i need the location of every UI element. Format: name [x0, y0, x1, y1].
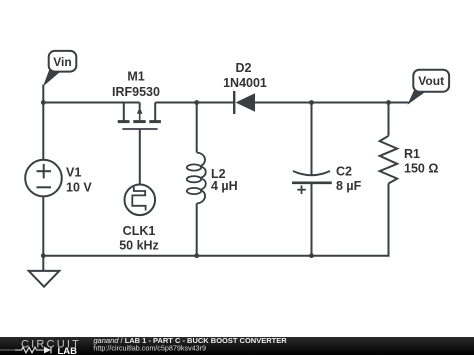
- junction Vin node / V1 top: [41, 100, 46, 105]
- junction C2 bottom: [309, 253, 314, 258]
- svg-text:8 µF: 8 µF: [336, 179, 362, 193]
- svg-text:LAB: LAB: [58, 346, 78, 355]
- wire top rail right (D2 anode to Vout tail): [255, 102, 409, 104]
- svg-text:Vin: Vin: [53, 55, 71, 69]
- svg-text:C2: C2: [336, 165, 352, 179]
- junction R1 top / Vout node: [386, 100, 391, 105]
- wire C2 bottom: [311, 183, 313, 256]
- junction C2 top: [309, 100, 314, 105]
- resistor R1: [380, 136, 439, 184]
- node Vin flag: [44, 51, 76, 85]
- ground: [29, 271, 60, 287]
- junction L2 top: [194, 100, 199, 105]
- junction L2 bottom: [194, 253, 199, 258]
- wire top rail mid (M1 drain to D2 cathode): [155, 102, 234, 104]
- wire M1 gate to CLK1: [139, 129, 141, 185]
- svg-text:50 kHz: 50 kHz: [119, 239, 159, 253]
- wire V1 top: [42, 103, 44, 160]
- transistor M1 (PMOS): [112, 70, 161, 130]
- wire top rail left (Vin node to M1 source/body): [43, 85, 139, 103]
- svg-text:10 V: 10 V: [66, 181, 92, 195]
- svg-text:1N4001: 1N4001: [223, 76, 267, 90]
- junction ground node / V1 bottom: [41, 253, 46, 258]
- inductor L2: [187, 153, 238, 204]
- voltage source V1: [25, 160, 92, 197]
- clock source CLK1: [119, 185, 159, 253]
- node Vout flag: [409, 70, 449, 104]
- C2 plus polarity mark: [297, 189, 306, 191]
- svg-text:4 µH: 4 µH: [211, 179, 238, 193]
- wire bottom rail: [43, 184, 388, 256]
- svg-text:http://circuitlab.com/c5p879ks: http://circuitlab.com/c5p879ksv43r9: [93, 343, 206, 352]
- svg-text:IRF9530: IRF9530: [112, 85, 160, 99]
- wire C2 top: [311, 103, 313, 175]
- svg-text:150 Ω: 150 Ω: [404, 162, 438, 176]
- svg-text:V1: V1: [66, 166, 81, 180]
- svg-text:CLK1: CLK1: [123, 224, 156, 238]
- wire R1 top: [388, 103, 390, 136]
- diode D2: [223, 61, 267, 114]
- capacitor C2 (polarized): [292, 165, 362, 195]
- wire ground stem: [42, 256, 44, 271]
- logo lead-in wire: [0, 349, 15, 351]
- wire L2 top: [196, 103, 198, 153]
- svg-text:M1: M1: [127, 70, 144, 84]
- logo diode: [44, 347, 51, 354]
- svg-text:R1: R1: [404, 147, 420, 161]
- logo resistor zigzag wire: [15, 347, 51, 354]
- wire L2 bottom: [196, 204, 198, 256]
- svg-text:D2: D2: [236, 61, 252, 75]
- svg-text:Vout: Vout: [418, 74, 444, 88]
- wire V1 bottom: [42, 196, 44, 255]
